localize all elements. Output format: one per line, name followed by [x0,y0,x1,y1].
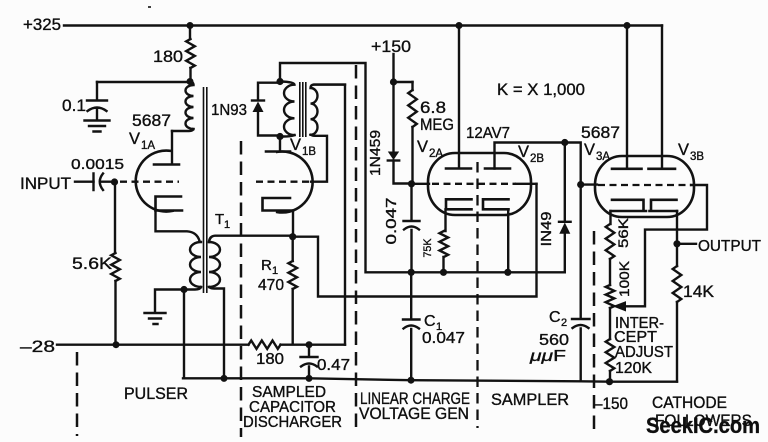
wire V3A grid entry [581,183,597,185]
junction 0.47/bottom rail [306,375,313,382]
svg-text:5687: 5687 [581,124,620,142]
junction rail/V3A plate [624,22,631,29]
resistor 120K [606,339,615,371]
V2A plate [458,26,460,169]
wire grid node to V2A [412,183,430,185]
resistor 5.6K [114,182,117,344]
svg-text:VOLTAGE GEN: VOLTAGE GEN [359,405,469,423]
junction V2B plate/1N49/V3A grid [561,139,568,146]
inductor T1 primary (V1A plate choke) [172,82,194,132]
wire sampling line [411,271,443,273]
svg-text:DISCHARGER: DISCHARGER [243,414,342,431]
svg-text:V: V [584,141,595,159]
junction OUTPUT [673,240,680,247]
svg-text:V: V [678,141,689,159]
speck artifact [148,6,151,8]
junction sampling line/75K [440,269,447,276]
svg-text:1N93: 1N93 [211,102,247,119]
wire V1A cathode to T1 [156,211,200,242]
divider pulser left (dashed) [76,352,79,436]
svg-text:R: R [261,257,272,274]
ground (0.1 cap) [85,121,110,132]
junction 0.47/-28 rail [306,341,313,348]
svg-text:INPUT: INPUT [20,175,71,193]
junction sampling line/C1 [408,269,415,276]
V3B plate [661,26,663,169]
svg-text:12AV7: 12AV7 [466,125,510,142]
wire V3A cathode down [609,211,611,224]
divider sampler/cathode-followers (dashed) [593,231,596,436]
svg-text:0.047: 0.047 [422,330,465,347]
svg-text:CATHODE: CATHODE [652,393,727,412]
divider voltage-gen/sampler (dashed, 12AV7 centre) [476,162,478,428]
svg-text:V: V [290,136,301,154]
svg-text:6.8: 6.8 [420,99,446,117]
wire -28 riser to pulse transformer [314,85,345,345]
pulse transformer core [300,82,306,137]
junction pulse-xfmr top [276,78,283,85]
V1B cathode [263,198,294,211]
wire pulse-xfmr primary top to sampling line (long loop) [280,63,408,272]
junction V1B cathode/T1/R1 [289,233,296,240]
svg-text:1: 1 [224,219,230,231]
junction rail/V2A plate [456,22,463,29]
junction input/grid/5.6K [111,178,118,185]
wire 100K-120K [609,308,611,339]
wire V2B plate to 1N49 node [495,143,563,169]
svg-text:V: V [129,130,140,148]
wire to V3A grid [565,143,581,182]
transformer T1 core [204,87,207,293]
svg-text:PULSER: PULSER [124,385,188,403]
svg-text:5.6K: 5.6K [72,255,112,273]
resistor 6.8 MEG [411,82,413,181]
V2A cathode [446,199,472,209]
resistor 56K [606,224,615,259]
wire T1 secondary top to V1B cathode node [209,236,290,242]
svg-text:–150: –150 [594,394,628,413]
svg-text:56K: 56K [616,218,631,248]
svg-text:14K: 14K [683,283,714,301]
svg-text:180: 180 [256,351,284,368]
capacitor 0.1 [87,82,107,120]
junction T1/ground [180,286,187,293]
svg-text:0.0015: 0.0015 [71,157,124,173]
svg-text:470: 470 [258,277,284,294]
wire 120K to -150 [609,371,611,381]
diode 1N49 [564,143,566,222]
V1A plate [154,163,179,166]
tube V1B envelope [277,152,312,213]
svg-text:1N459: 1N459 [367,130,384,176]
svg-text:IN49: IN49 [538,212,555,247]
capacitor C1 0.047 [403,272,420,378]
wire secondary bottom to V1B grid [311,135,328,182]
svg-text:MEG: MEG [420,116,454,134]
svg-text:1B: 1B [302,146,316,158]
svg-text:3A: 3A [596,151,610,163]
svg-text:–28: –28 [20,337,55,356]
V2B cathode [483,199,509,209]
wire -28 rail [57,344,345,346]
tube V1A envelope [136,151,173,212]
resistor R1 470 [292,237,294,344]
divider discharger/linear-charge (dashed) [355,65,358,434]
svg-text:5687: 5687 [132,112,171,130]
wire to 0.1 cap [97,81,187,83]
svg-text:V: V [417,138,428,156]
junction pulse-xfmr bottom / V1B plate [276,133,283,140]
wire 56K-100K [609,259,611,285]
tube 5687 envelope (V3A/V3B) [595,156,694,217]
capacitor 0.47 [301,345,318,378]
svg-text:C: C [424,313,436,330]
wire T1 junction down to bottom rail [183,290,185,379]
V2B plate [485,167,510,170]
V3A plate [626,26,628,169]
capacitor C2 560uuF [572,185,590,381]
wire bottom rail (-150 return) [183,378,610,381]
ground (T1) [145,313,166,324]
wire input [75,180,94,182]
svg-text:0.047: 0.047 [384,198,400,245]
svg-text:1: 1 [272,265,278,277]
intercept adjust arrow [613,301,627,311]
junction -150 [606,378,613,385]
wire V1B cathode node to V2B grid (sampling pulse line) [296,184,537,297]
resistor 75K (V2A cathode) [444,209,446,269]
junction sampling line/V2B cathode [504,269,511,276]
wire +325 rail [64,24,662,26]
svg-text:μμF: μμF [529,348,567,365]
svg-text:V: V [518,143,529,161]
V1A grid (dashed) [120,181,179,183]
wire V3B grid to intercept wiper [626,185,708,306]
wire output stub [677,243,696,245]
svg-text:C: C [549,309,561,326]
junction 5.6K/-28 rail [113,341,120,348]
junction 180/choke/0.1 [187,78,194,85]
junction T1 secondary/bottom rail [221,375,228,382]
V2A/V2B grid (dashed) [432,183,516,185]
capacitor 0.047 (sampling) [404,184,420,270]
V3A cathode [611,200,647,211]
wire V3B cathode down [676,211,678,241]
resistor 100K [606,285,615,308]
junction rail/180 [187,22,194,29]
wire V2B cathode down [507,209,509,269]
V1A cathode [156,197,183,211]
svg-text:75K: 75K [422,238,434,258]
diode 1N459 [394,82,409,184]
wire node to 6.8MEG [394,81,413,83]
wire to ground [155,290,181,313]
junction C1/bottom rail [408,377,415,384]
svg-text:+150: +150 [371,37,411,56]
wire V1B cathode down [292,211,294,235]
V3B cathode [650,200,678,211]
wire sampling line to 1N49 [508,235,565,273]
svg-text:560: 560 [539,332,569,349]
tube 12AV7 envelope [428,153,531,215]
svg-text:1A: 1A [141,140,155,152]
svg-text:120K: 120K [615,360,653,377]
pulse transformer primary winding [280,82,295,136]
wire +150 [392,54,394,79]
V1B plate [279,137,281,152]
svg-text:2: 2 [561,317,567,329]
resistor 180 (bottom, series in -28 line) [249,341,281,349]
junction V3A grid/C2 [577,181,584,188]
capacitor 0.0015 [94,174,112,191]
svg-text:0.1: 0.1 [62,96,86,115]
V1B grid (dashed) [256,181,310,183]
wire -150 rail to 14K [610,381,678,383]
divider pulser/discharger (dashed) [240,141,243,437]
wire V2B grid exit [516,183,537,185]
wire T1 secondary bottom [209,287,224,377]
svg-text:2B: 2B [530,153,544,165]
diode 1N93 [258,83,277,136]
svg-text:T: T [215,211,224,228]
resistor 14K [676,244,678,382]
V3 grid (dashed) [598,184,691,186]
T1 primary winding [190,242,201,287]
svg-text:2A: 2A [429,148,443,160]
junction +150/6.8MEG/1N459 [390,78,397,85]
svg-text:100K: 100K [617,261,632,297]
wire choke to V1A plate [171,131,173,164]
svg-text:SAMPLER: SAMPLER [491,391,569,409]
svg-text:+325: +325 [23,15,61,34]
svg-text:OUTPUT: OUTPUT [698,238,761,255]
svg-text:0.47: 0.47 [317,357,350,374]
svg-text:K = X 1,000: K = X 1,000 [497,80,585,99]
T1 secondary winding [209,242,220,287]
svg-text:ADJUST: ADJUST [615,344,673,361]
T1 primary bottom wire to ground junction [186,287,201,290]
wire sampling line to V2B cathode [444,271,509,273]
pulse transformer secondary winding [311,85,346,135]
resistor 180 (top) [186,39,195,68]
svg-text:180: 180 [153,47,183,66]
svg-text:3B: 3B [690,151,704,163]
svg-text:FOLLOWERS: FOLLOWERS [655,411,752,430]
junction V2A grid node [408,180,415,187]
